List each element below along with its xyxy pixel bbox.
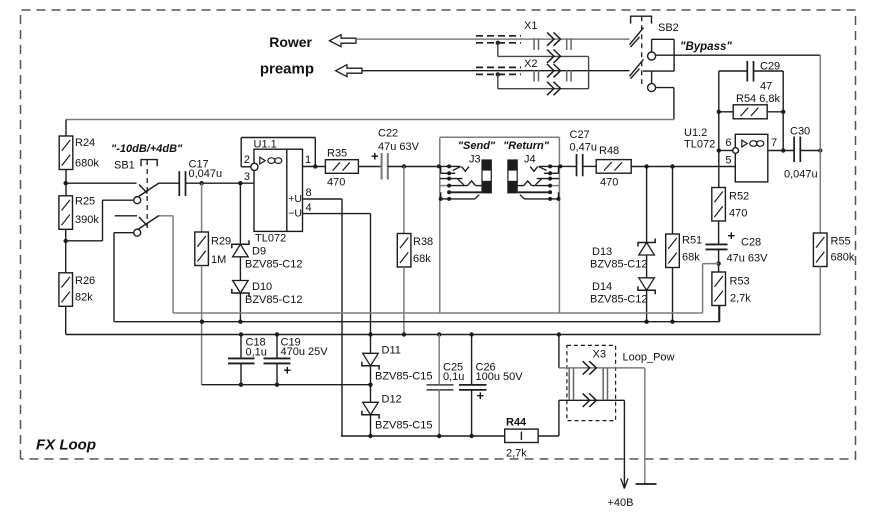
svg-text:+: +	[477, 388, 485, 403]
svg-text:7: 7	[771, 137, 777, 149]
svg-text:R52: R52	[729, 191, 749, 203]
svg-text:4: 4	[306, 202, 312, 214]
svg-text:D10: D10	[252, 281, 272, 293]
svg-text:preamp: preamp	[260, 61, 314, 78]
svg-text:D13: D13	[592, 246, 612, 258]
svg-text:3: 3	[244, 171, 250, 183]
svg-text:2: 2	[244, 154, 250, 166]
svg-text:C29: C29	[760, 61, 780, 73]
svg-text:470: 470	[729, 208, 747, 220]
svg-text:8: 8	[306, 187, 312, 199]
svg-text:R53: R53	[730, 276, 750, 288]
svg-text:R51: R51	[682, 235, 702, 247]
svg-text:R24: R24	[75, 137, 95, 149]
svg-text:X2: X2	[524, 58, 537, 70]
svg-text:0,047u: 0,047u	[189, 168, 223, 180]
svg-text:0,1u: 0,1u	[246, 347, 267, 359]
svg-text:U1.2: U1.2	[684, 127, 707, 139]
svg-text:SB2: SB2	[658, 22, 679, 34]
svg-text:+U: +U	[288, 193, 302, 205]
svg-text:470: 470	[600, 177, 618, 189]
svg-text:680k: 680k	[831, 252, 855, 264]
svg-text:R44: R44	[506, 417, 527, 429]
svg-text:470u 25V: 470u 25V	[281, 346, 329, 358]
svg-text:Rower: Rower	[269, 34, 312, 50]
svg-text:47u 63V: 47u 63V	[727, 253, 769, 265]
svg-text:100u 50V: 100u 50V	[476, 371, 524, 383]
svg-text:R29: R29	[211, 236, 231, 248]
svg-text:BZV85-C12: BZV85-C12	[590, 294, 647, 306]
svg-text:0,047u: 0,047u	[784, 169, 818, 181]
svg-text:D14: D14	[592, 281, 612, 293]
svg-text:R35: R35	[327, 148, 347, 160]
svg-text:"Send": "Send"	[458, 140, 496, 152]
svg-text:SB1: SB1	[114, 160, 135, 172]
svg-text:BZV85-C15: BZV85-C15	[375, 420, 432, 432]
svg-text:"Bypass": "Bypass"	[680, 41, 732, 53]
svg-text:1M: 1M	[211, 254, 226, 266]
svg-text:D9: D9	[252, 246, 266, 258]
svg-text:X1: X1	[524, 20, 537, 32]
svg-text:1: 1	[305, 154, 311, 166]
svg-text:R38: R38	[413, 236, 433, 248]
svg-text:82k: 82k	[75, 292, 93, 304]
svg-text:2,7k: 2,7k	[730, 293, 751, 305]
svg-text:47: 47	[760, 81, 772, 93]
svg-text:BZV85-C12: BZV85-C12	[590, 259, 647, 271]
svg-text:TL072: TL072	[684, 139, 715, 151]
svg-text:470: 470	[327, 177, 345, 189]
svg-text:TL072: TL072	[255, 233, 286, 245]
svg-text:"-10dB/+4dB": "-10dB/+4dB"	[111, 143, 183, 155]
svg-text:0,47u: 0,47u	[570, 142, 598, 154]
svg-text:2,7k: 2,7k	[506, 448, 527, 460]
svg-text:BZV85-C15: BZV85-C15	[375, 371, 432, 383]
svg-text:6: 6	[725, 137, 731, 149]
svg-text:+40B: +40B	[608, 497, 634, 509]
svg-text:BZV85-C12: BZV85-C12	[245, 294, 302, 306]
svg-text:+: +	[284, 363, 292, 378]
svg-text:680k: 680k	[75, 158, 99, 170]
svg-text:J4: J4	[524, 154, 536, 166]
svg-text:R54 6,8k: R54 6,8k	[736, 93, 781, 105]
svg-text:0,1u: 0,1u	[443, 371, 464, 383]
svg-text:+: +	[728, 228, 736, 243]
svg-text:X3: X3	[593, 349, 606, 361]
svg-text:FX Loop: FX Loop	[36, 437, 96, 454]
svg-text:R55: R55	[831, 236, 851, 248]
svg-text:C27: C27	[570, 129, 590, 141]
svg-text:68k: 68k	[413, 253, 431, 265]
svg-text:R25: R25	[75, 196, 95, 208]
svg-text:D12: D12	[382, 394, 402, 406]
svg-text:R48: R48	[599, 145, 619, 157]
svg-text:68k: 68k	[682, 252, 700, 264]
svg-text:47u 63V: 47u 63V	[378, 141, 420, 153]
svg-text:5: 5	[725, 155, 731, 167]
svg-text:Loop_Pow: Loop_Pow	[623, 352, 675, 364]
svg-text:C22: C22	[378, 128, 398, 140]
svg-text:J3: J3	[469, 154, 481, 166]
svg-text:R26: R26	[75, 275, 95, 287]
svg-text:−U: −U	[288, 208, 302, 220]
svg-text:BZV85-C12: BZV85-C12	[245, 259, 302, 271]
svg-text:C28: C28	[741, 237, 761, 249]
svg-text:D11: D11	[382, 345, 401, 357]
svg-text:390k: 390k	[75, 214, 99, 226]
svg-text:C30: C30	[790, 126, 810, 138]
svg-text:U1.1: U1.1	[254, 139, 277, 151]
svg-text:"Return": "Return"	[503, 140, 550, 152]
